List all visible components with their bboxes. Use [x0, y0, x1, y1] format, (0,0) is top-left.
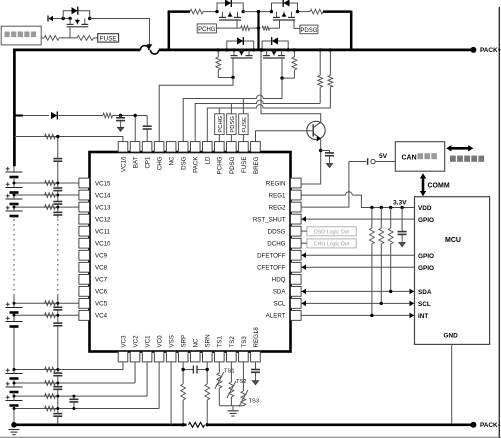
pin VC7 (left pin box) [79, 274, 90, 284]
wire VC16 row [14, 137, 123, 142]
wire COMM double arrow [422, 177, 425, 193]
pin VC13 (left pin box) [79, 202, 90, 212]
resistor LD sense [329, 50, 331, 76]
capacitor VC0 bottom [53, 413, 62, 415]
pin SDA (right pin box) [291, 286, 302, 296]
wire VC15 row [14, 182, 79, 184]
wire DSG net [183, 78, 282, 142]
node 5V circle [371, 159, 375, 163]
node capcol tap b [56, 407, 59, 410]
wire cell links top [13, 177, 15, 188]
svg-text:NC: NC [193, 338, 200, 347]
capacitor REGIN bypass [321, 150, 330, 152]
node capcol vc16 [56, 135, 59, 138]
label box FUSE vertical [239, 114, 248, 135]
wire protector line to pack [90, 19, 150, 46]
svg-text:LD: LD [205, 156, 212, 164]
battery cell 3 [6, 373, 23, 375]
pin VC3 (bottom pin box) [118, 352, 128, 362]
svg-text:BREG: BREG [253, 156, 260, 174]
capacitor CP1 series [146, 116, 148, 126]
svg-text:VC13: VC13 [95, 204, 111, 211]
svg-text:CFETOFF: CFETOFF [257, 265, 286, 272]
battery cell 13 [6, 210, 23, 212]
svg-text:TS2: TS2 [229, 336, 236, 348]
capacitor VC3-VC2 [53, 372, 62, 374]
svg-text:GPIO: GPIO [418, 253, 434, 260]
node PCHG drain [215, 10, 218, 13]
svg-text:FUSE: FUSE [100, 35, 117, 42]
svg-text:SCL: SCL [273, 301, 286, 308]
transistor PDSG FET [276, 12, 278, 18]
wire REG2 vertical redraw [348, 191, 350, 200]
svg-text:VC11: VC11 [95, 228, 111, 235]
wire TS common [219, 405, 243, 407]
pin VC14 (left pin box) [79, 190, 90, 200]
node cell tap b [13, 395, 16, 398]
wire VC3 row [14, 369, 123, 371]
label box PDSG (gate) [300, 25, 318, 34]
battery cell 15 [6, 187, 23, 189]
thermistor TS2 [229, 382, 234, 397]
svg-text:DFETOFF: DFETOFF [257, 253, 286, 260]
thermistor TS3 [241, 391, 246, 406]
pin VC5 (left pin box) [79, 299, 90, 309]
resistor VC16 filter [45, 134, 56, 139]
svg-text:PACK-: PACK- [480, 422, 500, 429]
pin BREG (top pin box) [251, 142, 261, 152]
ground REG18 arrow [254, 377, 256, 381]
node PCHG source [242, 10, 245, 13]
wire SRN down [206, 362, 208, 369]
node 3.3V c [389, 206, 392, 209]
node INT pullup [370, 314, 373, 317]
svg-text:MCU: MCU [445, 237, 461, 244]
resistor VC1 filter [45, 394, 56, 399]
pin REG2 (right pin box) [291, 202, 302, 212]
svg-text:VC8: VC8 [95, 265, 108, 272]
pin TS2 (bottom pin box) [227, 352, 237, 362]
wire SDA line [301, 290, 415, 292]
transistor CHG FET body diode loop [227, 41, 254, 50]
wire DSG net hop [257, 98, 263, 100]
diode PCHG body diode [225, 0, 231, 7]
pin PACK (top pin box) [190, 142, 200, 152]
svg-text:VC10: VC10 [95, 241, 111, 248]
node capcol tap [56, 194, 59, 197]
wire REGIN line [300, 183, 302, 185]
battery cell 1 [6, 400, 23, 402]
svg-text:NC: NC [169, 156, 176, 165]
svg-text:PACK+: PACK+ [480, 47, 501, 54]
node CHG gate [231, 76, 234, 79]
resistor protector R1 [44, 36, 59, 41]
wire BAT pin drop [134, 116, 136, 142]
wire top bypass thick horizontal right [323, 10, 351, 13]
wire capcol dotted [57, 219, 59, 295]
wire REG1 hop [346, 194, 352, 196]
node PDSG drain [270, 10, 273, 13]
wire top bypass thick vertical right [350, 11, 353, 50]
node SRN rail [206, 423, 209, 426]
node VC16 capcol [56, 135, 59, 138]
wire PCHG gate to mid [250, 27, 259, 29]
pin VC15 (left pin box) [79, 178, 90, 188]
node SDA pullup [389, 290, 392, 293]
wire REG2 to 5V [301, 162, 349, 208]
ground REGIN cap [329, 160, 331, 164]
resistor sense shunt [189, 422, 205, 427]
svg-text:TS2: TS2 [236, 379, 247, 385]
svg-text:3.3V: 3.3V [393, 199, 407, 206]
diode protector FET body diode loop [63, 11, 89, 19]
block secondary protector box [1, 26, 41, 45]
node PACK res top [319, 48, 322, 51]
svg-text:PDSG: PDSG [300, 28, 317, 34]
pin SRP (bottom pin box) [178, 352, 188, 362]
resistor VC4 filter [45, 313, 56, 318]
node DSG diode right [287, 48, 290, 51]
wire MCU GND down [451, 344, 453, 424]
diode CHG body diode [237, 37, 243, 44]
label box FUSE [98, 34, 119, 42]
diode protector body diode [72, 7, 78, 14]
svg-text:DSG: DSG [181, 156, 188, 170]
svg-text:DSG Logic Out: DSG Logic Out [314, 230, 349, 236]
wire capcol bottom [57, 295, 59, 307]
pin VC11 (left pin box) [79, 226, 90, 236]
svg-text:TS1: TS1 [224, 369, 235, 375]
wire SCL line [301, 302, 415, 304]
label box PCHG vertical [215, 114, 224, 135]
pin RST_SHUT (right pin box) [291, 214, 302, 224]
diode DSG body diode [272, 37, 278, 44]
node protector diode right [88, 17, 91, 20]
pin VC2 (bottom pin box) [130, 352, 140, 362]
wire LD net [207, 108, 330, 142]
wire PCHG pin net [218, 108, 220, 114]
svg-text:VC5: VC5 [95, 301, 108, 308]
pin DCHG (right pin box) [291, 238, 302, 248]
pin NC (top pin box) [166, 142, 176, 152]
pin PCHG (top pin box) [215, 142, 225, 152]
wire PDSG pin net [230, 104, 232, 114]
resistor VC13 filter [45, 205, 56, 210]
wire bottom cell links [13, 370, 15, 374]
wire VC13 row [14, 206, 79, 208]
pin BAT (top pin box) [130, 142, 140, 152]
node SRN tap [206, 368, 209, 371]
block CAN transceiver box [395, 142, 444, 172]
svg-text:SRP: SRP [181, 335, 188, 348]
node cell tap [13, 182, 16, 185]
wire REG1 segment a [301, 194, 346, 196]
wire CHG gate node [218, 77, 233, 79]
wire DCHG line [301, 242, 307, 244]
node CHG gate res top [217, 48, 220, 51]
wire cell column dotted [13, 219, 15, 295]
pin CP1 (top pin box) [142, 142, 152, 152]
node REGIN cap tap [319, 149, 322, 152]
svg-text:VC16: VC16 [120, 156, 127, 172]
wire capcol top [57, 137, 59, 159]
node capcol tap [56, 182, 59, 185]
svg-text:COMM: COMM [428, 183, 450, 190]
transistor PCHG FET [222, 12, 224, 18]
node stack bottom [11, 422, 17, 428]
battery cell 16 [6, 171, 23, 173]
resistor VC0 filter [45, 406, 56, 411]
svg-text:PDSG: PDSG [230, 116, 236, 133]
svg-text:VDD: VDD [418, 205, 432, 212]
wire emitter to REGIN [301, 139, 321, 184]
node SCL pullup [380, 302, 383, 305]
wire VC5 row [14, 302, 79, 304]
wire bottom border [0, 436, 501, 438]
svg-text:PCHG: PCHG [217, 156, 224, 174]
node PACK+ terminal [470, 47, 476, 53]
resistor BAT filter [103, 113, 113, 118]
node DSG gate res top [293, 48, 296, 51]
svg-text:PCHG: PCHG [218, 115, 224, 132]
node arrow into rail [147, 44, 153, 49]
wire BAT row a [23, 115, 49, 117]
svg-text:HDQ: HDQ [272, 277, 286, 284]
pin VC12 (left pin box) [79, 214, 90, 224]
svg-text:5V: 5V [379, 153, 388, 160]
svg-text:GPIO: GPIO [418, 265, 434, 272]
pin LD (top pin box) [202, 142, 212, 152]
svg-text:VC14: VC14 [95, 192, 111, 199]
capacitor BAT filter [120, 116, 122, 118]
node capcol tap b [56, 368, 59, 371]
node LD res top [329, 48, 332, 51]
node branch VC0 [72, 407, 75, 410]
pin VC4 (left pin box) [79, 311, 90, 321]
pin VC0 (bottom pin box) [154, 352, 164, 362]
svg-text:REGIN: REGIN [266, 180, 286, 187]
wire VC0 row [14, 408, 159, 410]
capacitor VC14-VC13 [53, 201, 62, 203]
node cell tap [13, 194, 16, 197]
wire RST_SHUT line [301, 218, 415, 220]
resistor VC2 filter [45, 381, 56, 386]
pin VC6 (left pin box) [79, 286, 90, 296]
svg-text:PDSG: PDSG [229, 156, 236, 174]
wire right border [498, 7, 500, 438]
ground stack bottom [9, 429, 20, 431]
battery cell 5 [6, 307, 23, 309]
svg-text:TS3: TS3 [249, 399, 260, 405]
op-amp U1 (battery monitor IC body) [90, 152, 291, 352]
pin REG18 (bottom pin box) [251, 352, 261, 362]
wire PACK- rail left [14, 423, 187, 426]
wire cap branch VC1 [73, 396, 75, 399]
wire CFETOFF line [301, 266, 415, 268]
transistor PCHG FET body diode loop [217, 3, 243, 12]
node protector diode left [62, 17, 65, 20]
svg-text:SCL: SCL [418, 301, 431, 308]
wire CAN bus double arrow [450, 147, 470, 150]
svg-text:VC0: VC0 [157, 335, 164, 348]
wire PACK- rail right [207, 423, 474, 426]
node mid top [257, 10, 260, 13]
transistor CHG FET [233, 50, 235, 56]
node capcol tap b [56, 395, 59, 398]
node DSG gate [280, 76, 283, 79]
node BAT drop [134, 114, 137, 117]
diode BAT series [51, 112, 57, 119]
node gate row mid [257, 26, 260, 29]
wire BAT row c [113, 115, 148, 117]
resistor SRP filter [181, 384, 186, 400]
wire REG1 segment b [352, 195, 372, 207]
svg-text:VSS: VSS [169, 335, 176, 347]
svg-text:CAN: CAN [402, 154, 417, 161]
wire protector R1-R2 [59, 37, 77, 39]
svg-text:VC7: VC7 [95, 277, 108, 284]
capacitor 5V filter bar [367, 158, 369, 165]
resistor protector R2 [77, 36, 93, 41]
thermistor TS1 [217, 373, 222, 388]
node capcol tap [56, 206, 59, 209]
wire SRP-SRN cap line [183, 369, 193, 371]
wire to PCHG FET drain [203, 11, 217, 13]
node SRP rail [181, 423, 184, 426]
block CHG Logic Out box [307, 239, 356, 248]
ground BAT cap arrow [120, 123, 122, 127]
wire cell column resume [13, 295, 15, 308]
capacitor VC15-VC14 [53, 187, 62, 189]
svg-text:PACK: PACK [193, 156, 200, 173]
wire VC4 row [14, 314, 79, 316]
svg-text:DCHG: DCHG [267, 241, 285, 248]
resistor top-right of PDSG FET [310, 9, 323, 14]
svg-text:CP1: CP1 [144, 156, 151, 169]
node cell tap [13, 206, 16, 209]
svg-text:SDA: SDA [418, 289, 432, 296]
svg-text:ALERT: ALERT [266, 313, 286, 320]
node SRP tap [181, 368, 184, 371]
pin DDSG (right pin box) [291, 226, 302, 236]
pin SCL (right pin box) [291, 299, 302, 309]
transistor DSG FET [266, 50, 268, 56]
svg-text:VC1: VC1 [144, 335, 151, 348]
svg-text:FUSE: FUSE [242, 117, 248, 133]
wire protector output [41, 37, 44, 39]
svg-text:GPIO: GPIO [418, 217, 434, 224]
pin HDQ (right pin box) [291, 274, 302, 284]
wire VC1 row [14, 395, 147, 397]
wire BAT row stub [14, 115, 23, 117]
node BAT cap [119, 114, 122, 117]
wire VC14 row [14, 194, 79, 196]
wire CHG net [159, 78, 233, 142]
pin CFETOFF (right pin box) [291, 262, 302, 272]
pin VC1 (bottom pin box) [142, 352, 152, 362]
resistor VC14 filter [45, 193, 56, 198]
ground TS [228, 410, 239, 412]
resistor top-left of PCHG FET [190, 9, 203, 14]
node 3.3V b [380, 206, 383, 209]
node PDSG source [296, 10, 299, 13]
pin ALERT (right pin box) [291, 311, 302, 321]
node capcol tap b [56, 382, 59, 385]
label box PCHG (gate) [197, 24, 216, 33]
wire collector net [261, 50, 321, 122]
wire R2 to FUSE [93, 37, 97, 39]
svg-text:VC9: VC9 [95, 253, 108, 260]
capacitor VC1-VC0 [69, 398, 78, 400]
node capcol tap [56, 302, 59, 305]
node cell tap [13, 314, 16, 317]
wire PACK net hop [257, 103, 263, 105]
resistor SDA pullup [390, 208, 392, 229]
pin TS1 (bottom pin box) [215, 352, 225, 362]
svg-text:SDA: SDA [273, 289, 287, 296]
wire TS3 down [242, 362, 244, 391]
wire VSS down [170, 362, 172, 425]
svg-text:REG1: REG1 [269, 192, 286, 199]
pin DSG (top pin box) [178, 142, 188, 152]
node cell tap b [13, 368, 16, 371]
wire BREG net to base [256, 131, 314, 142]
node DSG diode left [260, 48, 263, 51]
resistor PACK sense [319, 50, 321, 76]
wire PCHG gate row [216, 27, 240, 29]
resistor INT pullup [371, 208, 373, 229]
svg-text:GND: GND [444, 333, 459, 340]
svg-text:TS1: TS1 [217, 336, 224, 348]
wire PACK+ rail (thick top rail right segment) [159, 49, 474, 52]
pin SRN (bottom pin box) [202, 352, 212, 362]
node capcol tap [56, 314, 59, 317]
label to-system text [450, 156, 484, 162]
pin REGIN (right pin box) [291, 178, 302, 188]
svg-text:SRN: SRN [205, 334, 212, 347]
svg-text:PCHG: PCHG [198, 27, 216, 33]
battery cell 4 [6, 321, 23, 323]
pin REG1 (right pin box) [291, 190, 302, 200]
transistor PDSG FET body diode loop [272, 3, 298, 12]
node cell tap b [13, 407, 16, 410]
pin TS3 (bottom pin box) [239, 352, 249, 362]
svg-text:VC12: VC12 [95, 216, 111, 223]
pin FUSE (top pin box) [239, 142, 249, 152]
svg-text:INT: INT [418, 313, 428, 320]
svg-text:BAT: BAT [132, 156, 139, 168]
svg-text:DDSG: DDSG [268, 228, 286, 235]
node PACK- terminal [470, 422, 476, 428]
resistor VC15 filter [45, 181, 56, 186]
wire BAT row b [59, 115, 103, 117]
svg-text:CHG: CHG [157, 156, 164, 170]
wire thick mid vertical [257, 12, 259, 50]
svg-text:VC3: VC3 [120, 335, 127, 348]
battery cell 2 [6, 386, 23, 388]
resistor VC3 filter [45, 367, 56, 372]
transistor DSG FET body diode loop [262, 41, 288, 50]
wire rail hop down [150, 50, 158, 54]
resistor DSG gate pulloff [293, 50, 295, 57]
wire TS2 down [230, 362, 232, 382]
label secondary protector text [5, 32, 37, 38]
wire 3.3V rail [372, 207, 415, 209]
wire VC2 row [14, 382, 135, 384]
node 3.3V a [370, 206, 373, 209]
capacitor 3.3V bypass [401, 208, 403, 232]
capacitor VC5-VC4 [53, 306, 62, 308]
